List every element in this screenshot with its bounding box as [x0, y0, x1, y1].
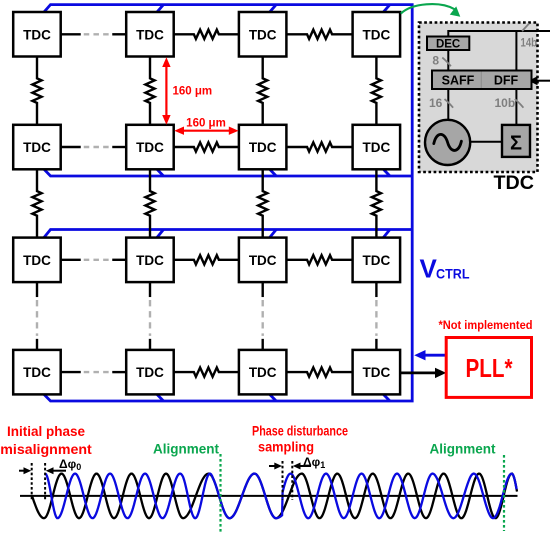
svg-text:TDC: TDC: [249, 253, 277, 268]
resistor row1 between TDC2-TDC3: [174, 30, 239, 39]
pin arrow input into DFF: [529, 76, 538, 85]
svg-text:Alignment: Alignment: [153, 442, 220, 457]
node alignment marker green dotted line 1: [219, 454, 221, 532]
resistor row4 between TDC3-TDC4: [286, 368, 352, 377]
svg-text:TDC: TDC: [23, 365, 51, 380]
svg-text:V: V: [420, 254, 438, 284]
op block TDC tile row1 col3: [239, 12, 287, 57]
op block TDC tile row3 col1: [13, 238, 61, 283]
svg-text:TDC: TDC: [494, 172, 534, 194]
node phase marker dotted lines dphi1: [283, 461, 293, 500]
svg-text:Δφ1: Δφ1: [303, 455, 325, 470]
op block TDC tile row1 col1: [13, 12, 61, 57]
op block TDC tile row3 col4: [353, 238, 401, 283]
svg-text:misalignment: misalignment: [0, 441, 92, 457]
resistor col1 between row2-row3: [32, 169, 41, 237]
svg-text:DFF: DFF: [494, 73, 519, 87]
svg-text:Δφ0: Δφ0: [59, 457, 81, 472]
note Phase disturbance sampling: [252, 423, 348, 455]
resistor row4 between TDC2-TDC3: [174, 368, 239, 377]
svg-text:TDC: TDC: [23, 27, 51, 42]
pin bus slash 16: [445, 99, 454, 108]
waveform reference clock (black sine): [32, 474, 517, 519]
svg-text:TDC: TDC: [249, 27, 277, 42]
svg-text:14b: 14b: [521, 36, 538, 50]
op block TDC internal detail inset: [419, 23, 538, 173]
value label 160 um horizontal pitch arrow: [174, 127, 238, 135]
value label 160 um vertical pitch arrow: [162, 57, 170, 124]
resistor col3 between row2-row3: [258, 169, 267, 237]
wire row1 TDC1-TDC2 abbreviated (dashed): [61, 33, 127, 35]
resistor row2 between TDC2-TDC3: [174, 142, 239, 151]
svg-text:8: 8: [432, 54, 439, 68]
op block TDC tile row2 col1: [13, 125, 61, 170]
svg-text:160 μm: 160 μm: [173, 86, 213, 98]
svg-text:16: 16: [429, 96, 443, 110]
node V_CTRL net label: [420, 254, 470, 284]
wire col2 row3-row4 abbreviated (dashed): [149, 282, 151, 350]
node alignment marker green dotted line 2: [503, 455, 505, 531]
svg-text:Alignment: Alignment: [430, 442, 497, 457]
svg-text:TDC: TDC: [23, 140, 51, 155]
op block TDC tile row2 col3: [239, 125, 287, 170]
resistor col4 between row2-row3: [372, 169, 381, 237]
value label dphi0 with arrows: [19, 467, 66, 474]
svg-text:TDC: TDC: [136, 365, 164, 380]
wire col4 row3-row4 abbreviated (dashed): [375, 282, 377, 350]
wire row4 TDC1-TDC2 abbreviated (dashed): [61, 371, 127, 373]
op block TDC tile row2 col4: [353, 125, 401, 170]
op block TDC tile row4 col1: [13, 350, 61, 395]
op block SAFF / DFF register: [432, 71, 532, 90]
resistor col3 between row1-row2: [258, 57, 267, 125]
wire callout green arrow from grid TDC to inset: [401, 4, 455, 13]
svg-text:Initial phase: Initial phase: [7, 423, 85, 439]
waveform local oscillator (blue sine with phase jump): [45, 474, 516, 519]
node phase marker dotted lines dphi0: [32, 463, 45, 500]
wire V_CTRL blue distribution net with taps to all TDC tiles: [44, 5, 412, 401]
pin bus slash 8: [442, 58, 451, 67]
op block TDC tile row4 col2: [126, 350, 174, 395]
op block TDC tile row3 col2: [126, 238, 174, 283]
op block DEC decoder: [427, 37, 469, 51]
resistor row1 between TDC3-TDC4: [286, 30, 352, 39]
wire 14b output: DFF up to top rail and out: [448, 31, 550, 142]
note Initial phase misalignment: [0, 423, 92, 457]
waveform horizontal axis: [20, 495, 518, 497]
svg-text:DEC: DEC: [436, 38, 460, 50]
op block sigma accumulator: [502, 125, 530, 157]
wire row3 TDC1-TDC2 abbreviated (dashed): [61, 259, 127, 261]
wire TDC output to PLL (black arrow): [400, 368, 446, 378]
svg-text:PLL*: PLL*: [466, 353, 514, 383]
svg-text:TDC: TDC: [249, 365, 277, 380]
pin bus slash 10b: [515, 99, 524, 108]
wire col3 row3-row4 abbreviated (dashed): [262, 282, 264, 350]
svg-text:TDC: TDC: [136, 140, 164, 155]
resistor row3 between TDC3-TDC4: [286, 255, 352, 264]
resistor row3 between TDC2-TDC3: [174, 255, 239, 264]
op block TDC tile row2 col2: [126, 125, 174, 170]
op block TDC tile row4 col4: [353, 350, 401, 395]
resistor col1 between row1-row2: [32, 57, 41, 125]
resistor row2 between TDC3-TDC4: [286, 142, 352, 151]
svg-text:TDC: TDC: [363, 27, 391, 42]
svg-text:10b: 10b: [495, 96, 516, 110]
svg-text:160 μm: 160 μm: [186, 117, 226, 129]
svg-text:CTRL: CTRL: [436, 267, 470, 282]
svg-text:SAFF: SAFF: [442, 73, 475, 87]
svg-text:TDC: TDC: [136, 253, 164, 268]
wire col1 row3-row4 abbreviated (dashed): [36, 282, 38, 350]
svg-text:Σ: Σ: [510, 133, 522, 155]
op block TDC tile row1 col2: [126, 12, 174, 57]
svg-text:TDC: TDC: [249, 140, 277, 155]
svg-text:Phase disturbance: Phase disturbance: [252, 423, 348, 439]
resistor col2 between row1-row2: [145, 57, 154, 125]
oscillator (DCO) circle with sine symbol: [425, 120, 470, 165]
svg-text:sampling: sampling: [258, 439, 314, 455]
svg-text:TDC: TDC: [363, 140, 391, 155]
op block TDC tile row3 col3: [239, 238, 287, 283]
value label dphi1 with arrows: [269, 463, 311, 470]
svg-text:TDC: TDC: [363, 253, 391, 268]
svg-text:*Not implemented: *Not implemented: [439, 320, 533, 332]
resistor col2 between row2-row3: [145, 169, 154, 237]
wire row2 TDC1-TDC2 abbreviated (dashed): [61, 146, 127, 148]
svg-text:TDC: TDC: [136, 27, 164, 42]
wire PLL output to V_CTRL net (blue arrow): [414, 350, 446, 360]
op block PLL (not implemented): [446, 338, 531, 398]
svg-text:TDC: TDC: [23, 253, 51, 268]
resistor col4 between row1-row2: [372, 57, 381, 125]
pin bus slash 14b: [522, 24, 529, 32]
op block TDC tile row4 col3: [239, 350, 287, 395]
op block TDC tile row1 col4: [353, 12, 401, 57]
svg-text:TDC: TDC: [363, 365, 391, 380]
